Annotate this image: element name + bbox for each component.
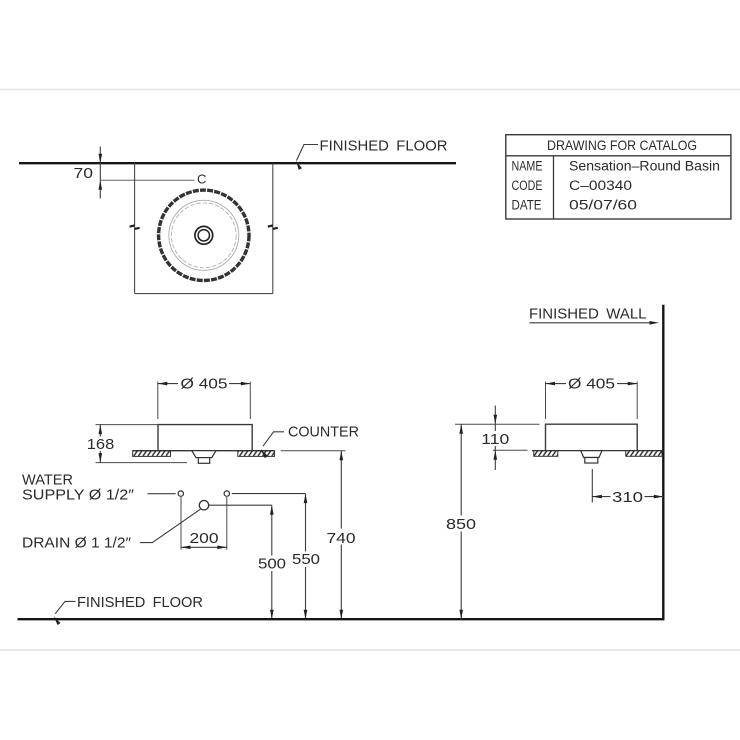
table header separator: [506, 155, 731, 157]
svg-text:200: 200: [190, 530, 219, 547]
label 168: [87, 437, 115, 452]
break mark right edge: [268, 226, 278, 229]
dim Ø405 extension line left: [157, 382, 159, 419]
drain outer circle (plan): [195, 226, 213, 244]
dim 168 vertical line: [99, 425, 101, 463]
svg-text:500: 500: [258, 556, 286, 573]
dim 740 vertical line: [340, 451, 342, 620]
counter hatch left (front): [133, 451, 171, 457]
line from drain circle to 500 dim: [209, 504, 272, 506]
svg-text:DRAIN Ø 1 1/2″: DRAIN Ø 1 1/2″: [22, 536, 131, 552]
counter hatch right (front): [238, 451, 275, 457]
drain inner circle (plan): [198, 230, 209, 241]
label 110: [481, 431, 510, 446]
leader COUNTER: [263, 432, 284, 446]
dim 168 top extension: [96, 424, 159, 426]
centre line C: [100, 179, 194, 181]
svg-text:FINISHED WALL: FINISHED WALL: [529, 306, 647, 323]
svg-text:05/07/60: 05/07/60: [569, 198, 637, 213]
basin inner rim solid: [169, 200, 239, 270]
counter outline (plan) bottom edge: [135, 293, 273, 295]
table outer border: [506, 135, 731, 219]
finished floor line (plan view wall line): [19, 162, 456, 164]
drain centre line (side): [591, 469, 593, 503]
label 850: [446, 516, 477, 532]
dim 200 extension right: [226, 497, 228, 550]
label 740: [326, 529, 356, 545]
svg-text:Sensation–Round Basin: Sensation–Round Basin: [569, 159, 720, 174]
top extension line (850/110): [455, 423, 540, 425]
svg-text:WATER: WATER: [22, 473, 73, 489]
finished floor line (bottom): [18, 618, 665, 620]
svg-text:DATE: DATE: [512, 198, 542, 213]
svg-text:C: C: [197, 172, 206, 187]
svg-text:FINISHED FLOOR: FINISHED FLOOR: [77, 594, 203, 611]
label 500: [258, 556, 287, 572]
break mark left edge: [130, 226, 140, 229]
basin body (front): [158, 425, 252, 451]
svg-text:Ø 405: Ø 405: [181, 376, 228, 393]
leader FINISHED FLOOR (bottom): [55, 601, 75, 613]
dim 550 vertical line: [305, 494, 307, 620]
svg-text:110: 110: [481, 431, 509, 448]
svg-text:C–00340: C–00340: [569, 178, 632, 193]
svg-text:550: 550: [292, 551, 320, 568]
counter outline (plan) left edge: [134, 163, 136, 293]
table column divider: [553, 156, 555, 219]
bottom gray rule: [0, 649, 740, 651]
svg-text:DRAWING FOR CATALOG: DRAWING FOR CATALOG: [547, 137, 697, 153]
finished wall line: [662, 305, 664, 620]
leader FINISHED FLOOR (top): [297, 145, 319, 161]
svg-text:Ø 405: Ø 405: [568, 376, 615, 393]
svg-text:COUNTER: COUNTER: [288, 425, 359, 441]
basin outer rim (dashed thick ring): [159, 190, 249, 280]
counter hatch left (side): [534, 451, 558, 457]
leader drain: [140, 509, 201, 542]
dim 110 vertical line: [494, 406, 496, 471]
counter hatch right (side): [626, 451, 662, 457]
counter line (side): [532, 450, 663, 452]
dim 500 vertical line: [271, 505, 273, 619]
dimension 70 vertical line: [99, 147, 101, 199]
svg-text:CODE: CODE: [512, 178, 543, 193]
dim 850 vertical line: [460, 424, 462, 619]
dim 168 bottom extension: [96, 462, 188, 464]
counter line (front): [133, 450, 275, 452]
svg-text:850: 850: [446, 516, 476, 533]
dim Ø405 line segments: [158, 383, 178, 385]
label 310: [611, 489, 645, 505]
dim 310 line: [592, 496, 663, 498]
svg-text:70: 70: [74, 165, 94, 182]
top gray rule: [0, 89, 740, 91]
drain flange (front): [192, 451, 216, 458]
svg-text:168: 168: [87, 436, 115, 453]
svg-text:NAME: NAME: [512, 159, 543, 174]
dim Ø405 ext right (side): [636, 382, 638, 419]
water supply circle left: [178, 491, 183, 496]
bottom extension line (110): [493, 449, 528, 451]
dim 200 extension left: [180, 497, 182, 550]
drain tail (side): [585, 458, 598, 464]
line from right supply circle to 550 dim: [232, 493, 306, 495]
drain tail (front): [198, 458, 209, 464]
drain flange (side): [581, 451, 602, 458]
counter outline (plan) right edge: [272, 163, 274, 293]
water supply circle right: [224, 491, 229, 496]
svg-text:740: 740: [327, 530, 356, 547]
counter level extension to 740 dim: [281, 450, 346, 452]
svg-text:310: 310: [612, 489, 643, 506]
leader water supply: [148, 493, 176, 495]
basin body (side): [546, 424, 638, 450]
drain circle (front): [199, 501, 208, 510]
dim 200 line: [181, 546, 227, 548]
svg-text:SUPPLY Ø 1/2″: SUPPLY Ø 1/2″: [22, 488, 134, 504]
dim Ø405 extension line right: [249, 382, 251, 419]
dim Ø405 line segments (side): [546, 383, 567, 385]
finished wall leader underline: [530, 322, 652, 324]
svg-text:FINISHED FLOOR: FINISHED FLOOR: [320, 138, 448, 155]
dim Ø405 ext left (side): [545, 382, 547, 419]
basin inner rim dashed: [171, 203, 236, 268]
label 550: [292, 552, 321, 568]
